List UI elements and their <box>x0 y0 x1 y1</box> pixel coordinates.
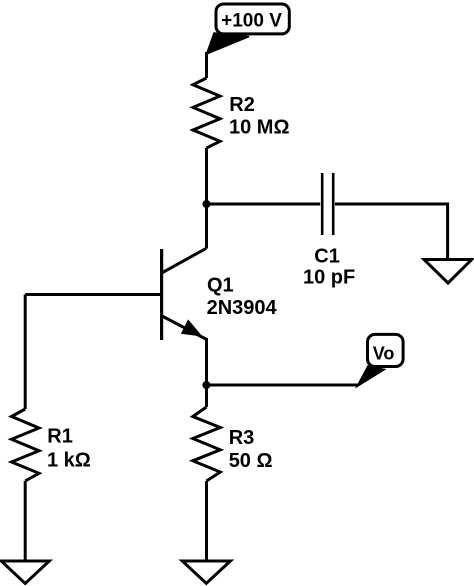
wire R3 bottom to middle ground <box>205 481 208 561</box>
svg-text:C1: C1 <box>314 245 340 267</box>
svg-text:10 pF: 10 pF <box>303 267 355 289</box>
wire V+ to R2 top <box>205 52 208 78</box>
wire left rail down to R1 <box>24 295 27 410</box>
ground (middle, under R3) <box>182 561 230 583</box>
ground (left, under R1) <box>1 561 49 584</box>
svg-text:R1: R1 <box>47 425 73 447</box>
svg-text:Q1: Q1 <box>207 275 234 297</box>
node A junction dot <box>203 200 211 208</box>
capacitor C1 <box>322 173 333 235</box>
net +100V pointer tail <box>207 33 250 54</box>
transistor Q1 emitter lead <box>162 316 206 339</box>
transistor Q1 collector lead <box>162 248 206 272</box>
node B junction dot <box>202 381 210 389</box>
svg-text:+100 V: +100 V <box>221 11 282 32</box>
wire node A to Q1 collector <box>205 204 208 249</box>
wire C1 right plate to right ground <box>335 204 448 259</box>
svg-text:1 kΩ: 1 kΩ <box>47 449 91 471</box>
svg-text:Vo: Vo <box>373 344 395 364</box>
wire node B to Vo tail <box>206 384 358 387</box>
svg-text:R3: R3 <box>229 427 255 449</box>
resistor R3 <box>193 407 221 481</box>
svg-text:10 MΩ: 10 MΩ <box>229 117 290 139</box>
net +100V label box <box>216 4 289 34</box>
wire node B to R3 top <box>205 385 208 407</box>
net Vo pointer tail <box>357 366 385 387</box>
svg-text:R2: R2 <box>229 94 255 116</box>
svg-text:2N3904: 2N3904 <box>207 297 278 319</box>
wire node A to C1 left plate <box>207 203 321 206</box>
resistor R1 <box>12 409 40 481</box>
wire Q1 emitter to node B <box>205 338 208 385</box>
wire base to left rail <box>25 293 161 296</box>
ground (right, under C1) <box>424 260 472 284</box>
transistor Q1 base bar <box>160 249 163 340</box>
transistor Q1 emitter arrowhead <box>182 320 202 336</box>
wire R2 bottom to node A <box>205 148 208 204</box>
resistor R2 <box>193 78 220 148</box>
wire R1 bottom to left ground <box>24 481 27 561</box>
net Vo label box <box>368 334 404 366</box>
svg-text:50 Ω: 50 Ω <box>229 450 273 472</box>
